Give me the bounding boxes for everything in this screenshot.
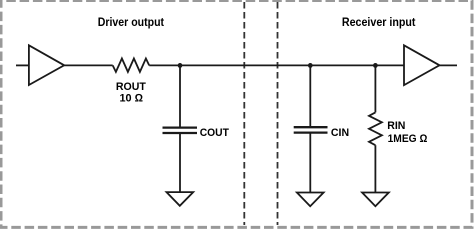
svg-text:ROUT: ROUT bbox=[116, 81, 146, 93]
svg-text:Receiver input: Receiver input bbox=[342, 15, 416, 29]
op-amp U1 (driver buffer) bbox=[29, 45, 64, 85]
op-amp U2 (receiver buffer) bbox=[404, 45, 440, 85]
wire: RIN branch down bbox=[374, 65, 376, 112]
resistor RIN bbox=[369, 112, 382, 145]
receiver box divider (left edge of Receiver input region) bbox=[277, 2, 279, 225]
svg-text:RIN: RIN bbox=[387, 120, 405, 132]
svg-text:1MEG Ω: 1MEG Ω bbox=[388, 133, 428, 145]
wire: driver input stub bbox=[16, 64, 28, 66]
wire: driver output to ROUT bbox=[64, 64, 113, 66]
wire: CIN branch down bbox=[309, 65, 311, 126]
node: ROUT/COUT junction bbox=[178, 63, 183, 68]
svg-text:Driver output: Driver output bbox=[98, 15, 164, 29]
ground (RIN) bbox=[362, 193, 389, 207]
wire: COUT to ground bbox=[179, 134, 181, 192]
svg-text:COUT: COUT bbox=[200, 127, 229, 139]
capacitor COUT bbox=[163, 126, 198, 128]
wire: COUT branch down bbox=[179, 65, 181, 126]
node: RIN junction bbox=[373, 63, 378, 68]
resistor ROUT bbox=[113, 59, 150, 72]
ground (COUT) bbox=[167, 192, 194, 206]
wire: ROUT to receiver (main net) bbox=[149, 64, 404, 66]
driver box divider (right edge of Driver output region) bbox=[243, 2, 245, 225]
ground (CIN) bbox=[297, 193, 324, 207]
svg-text:10 Ω: 10 Ω bbox=[119, 93, 143, 105]
svg-text:CIN: CIN bbox=[331, 127, 349, 139]
capacitor CIN bbox=[294, 126, 328, 128]
node: CIN junction bbox=[308, 63, 313, 68]
wire: CIN to ground bbox=[309, 133, 311, 192]
wire: RIN to ground bbox=[374, 145, 376, 192]
wire: receiver output stub bbox=[440, 64, 458, 66]
